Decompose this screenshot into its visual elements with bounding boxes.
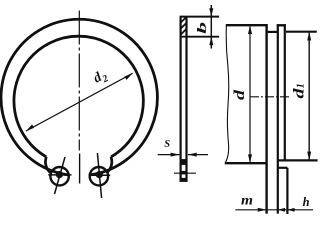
left hole horizontal centerline (48, 174, 71, 176)
b dimension line (210, 5, 212, 49)
bar interior band upper (182, 159, 186, 165)
bar interior band middle (182, 171, 186, 175)
left lug hole (57, 172, 62, 177)
left hole radial centerline (55, 157, 66, 194)
housing top-left bore line H1 (226, 24, 268, 26)
arrowhead at V2 (278, 208, 285, 212)
svg-text:m: m (241, 194, 253, 209)
ring right neck (107, 157, 112, 173)
right lug (90, 167, 108, 185)
svg-text:h: h (303, 195, 310, 209)
right hole horizontal centerline (90, 174, 110, 176)
b arrowhead bottom (209, 37, 213, 45)
svg-text:b: b (194, 21, 209, 34)
b arrowhead top (209, 8, 213, 16)
m h arrow line (235, 209, 313, 211)
housing break line (225, 25, 229, 163)
svg-text:d: d (292, 88, 308, 99)
d2 arrowhead lower-left (26, 124, 34, 131)
d2 dimension line (26, 73, 133, 131)
right hole radial centerline (97, 153, 101, 198)
bar lug hole axis line (174, 172, 196, 174)
s arrowhead right (188, 153, 197, 157)
d dimension line (249, 25, 251, 163)
hatch box bottom / b bottom extension line (180, 36, 220, 38)
svg-text:d: d (232, 89, 248, 100)
s dimension left arrow line (158, 154, 180, 156)
svg-text:1: 1 (295, 83, 306, 88)
h arrowhead at V3 lower (288, 208, 295, 212)
groove bottom step H2 (267, 31, 278, 33)
hatch stroke 3 (181, 29, 187, 35)
lug step (278, 167, 288, 169)
d1 dimension line (308, 32, 310, 161)
lug right edge V3 lower (286, 168, 288, 214)
bar top edge / b top extension line (180, 16, 220, 18)
hatch stroke 1 (181, 18, 186, 23)
assembly axis centerline (250, 96, 290, 98)
right lug hole (97, 172, 102, 177)
groove side wall V1 (265, 25, 267, 213)
svg-text:S: S (164, 139, 170, 150)
d arrowhead bottom (248, 154, 252, 163)
side bar right edge (185, 17, 187, 182)
ring inner arc (14, 36, 143, 157)
ring outer arc (1, 19, 157, 175)
housing bottom-right bore line H5 (278, 159, 318, 161)
m arrowhead at V1 (258, 208, 267, 212)
s arrowhead left (171, 153, 180, 157)
side bar left edge (180, 17, 182, 182)
housing bottom-left bore line H4 (225, 162, 267, 164)
d arrowhead top (248, 25, 252, 34)
housing top-right bore line H3 (286, 31, 317, 33)
hatch stroke 2 (181, 23, 187, 29)
ring left neck (45, 157, 50, 173)
ring section left edge V2 (277, 24, 279, 213)
label d2 (91, 67, 110, 88)
bar bottom cap (180, 178, 188, 182)
d2 arrowhead upper-right (125, 73, 133, 80)
ring section tab cap (277, 24, 286, 26)
s dimension right arrow line (188, 154, 208, 156)
left lug (50, 167, 68, 185)
d1 arrowhead top (307, 32, 311, 41)
d1 arrowhead bottom (307, 152, 311, 161)
gap centerline segment (79, 154, 81, 184)
ring vertical centerline (78, 11, 80, 151)
ring section right edge V3 upper (284, 24, 286, 161)
